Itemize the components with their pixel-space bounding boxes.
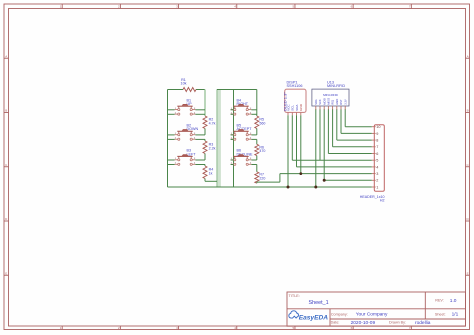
wire right chain top drop <box>256 90 258 117</box>
wire DISP1 VCC down <box>287 115 289 187</box>
svg-text:A: A <box>467 54 469 58</box>
wire B4 right pins to chain <box>251 109 256 111</box>
pushbutton B5 <box>231 124 253 141</box>
svg-text:Drawn By:: Drawn By: <box>389 321 406 325</box>
svg-text:470: 470 <box>259 149 265 153</box>
svg-text:Date:: Date: <box>331 321 340 325</box>
wire U13 pin4 to pin6 <box>327 109 329 153</box>
wire U13 pin6 to pin8 <box>336 109 338 140</box>
display DISP1 SSH1106 <box>282 80 306 112</box>
svg-text:1: 1 <box>376 185 378 189</box>
pushbutton B4 <box>231 98 252 115</box>
EasyEDA logo <box>289 311 299 318</box>
svg-text:TITLE:: TITLE: <box>289 294 300 298</box>
svg-text:GND: GND <box>299 103 303 111</box>
wire B2 right pins to chain <box>195 134 205 136</box>
wire net pin1 ground bus <box>168 186 372 188</box>
svg-text:B: B <box>467 109 469 113</box>
svg-text:MISO: MISO <box>327 98 331 105</box>
wire U13 pin5 to pin7 <box>332 109 334 146</box>
svg-text:E: E <box>5 271 7 275</box>
svg-text:1/1: 1/1 <box>452 312 459 318</box>
svg-text:rodellia: rodellia <box>415 320 431 326</box>
svg-text:SCK: SCK <box>318 99 322 105</box>
wire B4 left pins to rail <box>231 109 234 111</box>
svg-text:E: E <box>467 271 469 275</box>
svg-text:Company:: Company: <box>331 312 348 316</box>
junction dot U13 pin3 pin2 net <box>323 179 326 182</box>
svg-text:IRQ: IRQ <box>331 100 335 105</box>
svg-text:A: A <box>5 54 7 58</box>
title block <box>287 292 466 326</box>
svg-text:RST: RST <box>339 99 343 105</box>
wire chain R3 to B3 <box>204 154 206 161</box>
svg-text:SSH1106: SSH1106 <box>287 84 303 88</box>
svg-text:3: 3 <box>376 172 378 176</box>
svg-text:6: 6 <box>376 152 378 156</box>
svg-text:3.3V: 3.3V <box>343 99 347 105</box>
svg-text:10k: 10k <box>181 81 187 85</box>
svg-text:1.0: 1.0 <box>450 298 457 304</box>
wire chain bottom loop <box>204 179 206 182</box>
wire DISP1 GND down to pin3 net <box>300 115 302 173</box>
svg-text:560: 560 <box>259 121 265 125</box>
wire B1 right pins to chain <box>195 109 205 111</box>
svg-text:2: 2 <box>376 179 378 183</box>
wire bridge between groups <box>217 89 234 91</box>
wire left rail <box>167 90 169 188</box>
svg-text:5: 5 <box>376 159 378 163</box>
svg-text:MINI-RFID: MINI-RFID <box>323 93 339 97</box>
svg-text:1k: 1k <box>209 171 213 175</box>
svg-text:9: 9 <box>376 132 378 136</box>
wire B6 right pins to chain <box>251 159 256 161</box>
wire right chain mid1 <box>256 129 258 135</box>
wire U13 pin7 to pin9 <box>340 109 342 133</box>
wire chain R2 to B2 <box>204 129 206 135</box>
resistor R5 <box>255 116 259 129</box>
svg-text:DOWN: DOWN <box>187 127 199 131</box>
module U13 MINI-RFID <box>312 80 349 106</box>
wire right group left rail <box>233 90 235 188</box>
svg-text:REV:: REV: <box>435 299 443 303</box>
resistor R6 <box>255 144 259 155</box>
resistor R2 <box>203 116 207 129</box>
wire B5 left pins to rail <box>231 134 234 136</box>
svg-text:7: 7 <box>376 145 378 149</box>
pushbutton B2 <box>175 124 199 141</box>
wire right group top <box>234 89 257 91</box>
wire B1 left pins to rail <box>168 109 175 111</box>
svg-text:MINI-RFID: MINI-RFID <box>327 84 345 88</box>
wire U13 pin8 to pin10 <box>344 109 346 126</box>
svg-text:EasyEDA: EasyEDA <box>299 314 329 321</box>
wire B3 left pins to rail <box>168 159 175 161</box>
wire DISP1 SDA to pin4 <box>296 115 298 167</box>
svg-text:2020-10-09: 2020-10-09 <box>351 320 376 326</box>
resistor R4 <box>203 166 207 179</box>
junction dot VCC ground bus <box>287 186 290 189</box>
svg-text:8: 8 <box>376 139 378 143</box>
svg-text:GND: GND <box>335 99 339 105</box>
svg-text:4: 4 <box>376 165 378 169</box>
svg-text:SDA: SDA <box>314 99 318 105</box>
svg-text:4.7k: 4.7k <box>209 121 216 125</box>
svg-text:H2: H2 <box>380 199 385 203</box>
wire U13 pin3 down to pin2 net <box>323 109 325 180</box>
junction dot GND pin3 net <box>299 172 302 175</box>
wire B6 left pins to rail <box>231 159 234 161</box>
wire U13 pin1 down to ground bus <box>315 109 317 187</box>
junction dot U13 pin1 ground bus <box>314 186 317 189</box>
svg-text:Your Company: Your Company <box>356 312 388 318</box>
wire right chain mid2 <box>256 156 258 160</box>
pushbutton B1 <box>175 98 196 115</box>
svg-text:10: 10 <box>376 125 380 129</box>
resistor R7 <box>255 172 259 183</box>
svg-text:220: 220 <box>259 176 265 180</box>
resistor R1 <box>183 88 196 92</box>
wire right chain to pin3 net Z-bend <box>256 182 258 183</box>
wire top left with R1 <box>168 89 184 91</box>
wire DISP1 SCL to pin5 <box>291 115 293 160</box>
wire U13 pin2 down to pin5 net <box>319 109 321 160</box>
connector H2 HEADER_1x10 <box>360 125 385 203</box>
wire net pin2 from U13 pin3 <box>324 179 372 181</box>
DISP1 pin stubs <box>287 112 289 115</box>
wire mid rail bus band <box>216 89 221 187</box>
svg-text:2.2k: 2.2k <box>209 146 216 150</box>
wire B5 right pins to chain <box>251 134 256 136</box>
wire chain column top drop <box>204 90 206 117</box>
svg-text:Sheet:: Sheet: <box>435 312 446 316</box>
wire B2 left pins to rail <box>168 134 175 136</box>
U13 pin stubs <box>315 106 317 110</box>
wire B3 right pins to chain <box>195 159 205 161</box>
svg-text:B: B <box>5 109 7 113</box>
pushbutton B6 <box>231 149 253 166</box>
wire net pin3 from keypad Z-bend <box>280 173 372 175</box>
svg-text:Sheet_1: Sheet_1 <box>309 300 329 306</box>
svg-text:MOSI: MOSI <box>322 98 326 105</box>
resistor R3 <box>203 141 207 154</box>
pushbutton B3 <box>175 149 197 166</box>
